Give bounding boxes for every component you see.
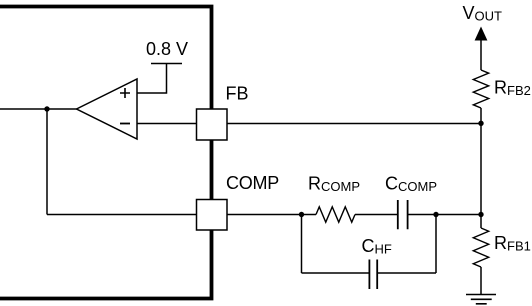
wire left leg of CHF branch <box>301 215 303 274</box>
wire FB node down to COMP row node <box>480 123 482 214</box>
capacitor CCOMP <box>398 200 408 229</box>
reference voltage bar symbol <box>151 63 182 65</box>
wire COMP pin to compensation network <box>227 214 316 216</box>
wire node to RFB1 <box>480 215 482 229</box>
wire minus input to FB pin <box>137 123 197 125</box>
resistor RFB2 <box>473 70 488 108</box>
wire op-amp output to left edge <box>0 108 77 110</box>
wire plus input to reference <box>137 64 167 94</box>
arrow to VOUT <box>475 27 488 41</box>
resistor RFB1 <box>473 228 488 267</box>
node junction left of Rcomp <box>299 212 304 217</box>
node FB divider junction <box>478 121 483 126</box>
wire FB pin to feedback divider node <box>227 123 481 125</box>
resistor RCOMP <box>316 207 355 222</box>
svg-text:RFB2: RFB2 <box>494 78 531 99</box>
op-amp minus input marker <box>120 123 130 125</box>
wire right junction to divider leg <box>436 214 481 216</box>
svg-text:RFB1: RFB1 <box>494 233 531 254</box>
wire Ccomp to right junction <box>408 214 436 216</box>
svg-text:FB: FB <box>226 84 249 104</box>
pin COMP box <box>197 200 228 231</box>
svg-text:RCOMP: RCOMP <box>308 174 360 195</box>
wire Rcomp to Ccomp <box>355 214 398 216</box>
wire RFB2 to FB node <box>480 108 482 123</box>
svg-text:CCOMP: CCOMP <box>385 174 437 195</box>
wire right leg of CHF branch <box>435 215 437 274</box>
node junction right of Ccomp <box>433 212 438 217</box>
op-amp U1 <box>77 79 138 139</box>
op-amp plus input marker <box>120 88 130 98</box>
wire junction down to COMP row <box>46 109 48 215</box>
node junction at RFB1 top <box>478 212 483 217</box>
node junction on output wire <box>44 106 49 111</box>
wire to COMP pin <box>47 214 197 216</box>
wire CHF branch bottom left <box>302 272 370 274</box>
IC body outline <box>0 7 212 299</box>
wire arrow to RFB2 <box>480 39 482 70</box>
svg-text:CHF: CHF <box>362 236 392 257</box>
wire RFB1 to ground <box>480 267 482 295</box>
svg-text:COMP: COMP <box>226 173 279 193</box>
ground <box>466 295 496 304</box>
pin FB box <box>197 109 228 140</box>
svg-text:0.8 V: 0.8 V <box>146 39 188 59</box>
wire CHF branch bottom right <box>377 272 436 274</box>
capacitor CHF <box>369 260 377 290</box>
svg-text:VOUT: VOUT <box>463 3 503 24</box>
